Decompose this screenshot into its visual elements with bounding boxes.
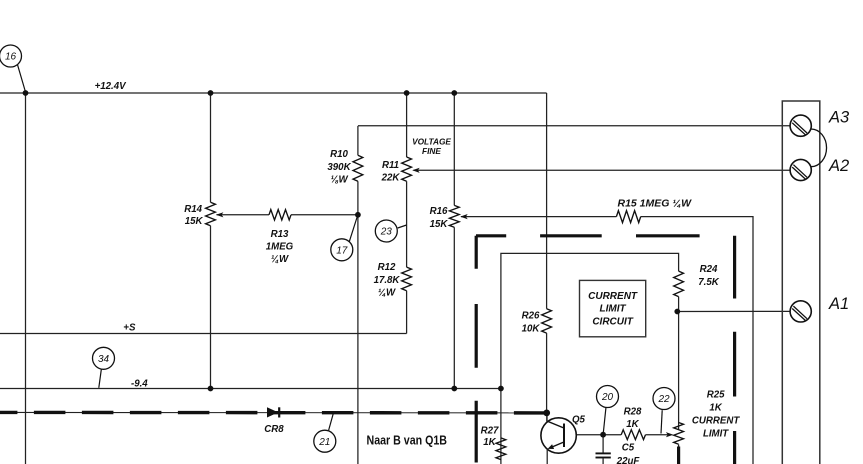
- transistor Q5: [541, 413, 576, 464]
- wire dashed boundary top edge: [476, 234, 700, 237]
- potentiometer R14 15K: [206, 202, 216, 226]
- wire A3 lead: [358, 125, 790, 127]
- svg-text:22K: 22K: [381, 173, 401, 184]
- node junction dots: [23, 90, 681, 438]
- svg-text:17.8K: 17.8K: [374, 275, 401, 286]
- svg-text:34: 34: [98, 354, 110, 365]
- wire +S line: [0, 333, 407, 335]
- svg-text:CR8: CR8: [264, 424, 284, 435]
- resistor R26 10K: [542, 309, 552, 333]
- wire R26 branch vertical: [546, 93, 548, 413]
- svg-text:Naar B van Q1B: Naar B van Q1B: [367, 432, 448, 447]
- svg-text:CURRENT: CURRENT: [692, 416, 740, 427]
- svg-text:20: 20: [601, 392, 614, 403]
- svg-text:FINE: FINE: [422, 146, 441, 156]
- svg-text:-9.4: -9.4: [131, 379, 148, 390]
- wire R14 wiper to R13 to node: [217, 214, 358, 216]
- wire -9.4 line: [0, 388, 501, 390]
- svg-text:¼W: ¼W: [378, 288, 396, 299]
- svg-text:⅛W: ⅛W: [330, 174, 348, 185]
- svg-text:CURRENT: CURRENT: [588, 291, 638, 302]
- terminal strip: [782, 101, 820, 464]
- arrow Q5 emitter: [548, 444, 555, 449]
- screw terminal A3: [790, 115, 811, 136]
- wire jumper arc A3-A2: [811, 129, 827, 167]
- svg-text:A1: A1: [828, 295, 849, 313]
- arrow wiper R16: [460, 214, 468, 219]
- resistor R15 1MEG 1/4W: [616, 211, 640, 223]
- label box CURRENT LIMIT CIRCUIT: [580, 280, 646, 336]
- svg-text:A3: A3: [828, 109, 850, 127]
- svg-text:R14: R14: [184, 204, 202, 215]
- svg-text:21: 21: [318, 437, 330, 448]
- svg-text:A2: A2: [828, 157, 849, 175]
- capacitor C5 22uF: [596, 453, 611, 457]
- wire Q5 base lead: [576, 434, 669, 436]
- svg-text:C5: C5: [622, 443, 635, 454]
- potentiometer R11 22K: [402, 157, 412, 181]
- svg-text:15K: 15K: [430, 219, 449, 230]
- svg-text:390K: 390K: [327, 162, 351, 173]
- balloon callout 17: [331, 217, 358, 261]
- wire left vertical bus: [25, 93, 27, 464]
- svg-text:R24: R24: [700, 264, 718, 275]
- svg-text:23: 23: [380, 227, 393, 238]
- svg-text:R12: R12: [378, 262, 396, 273]
- wire C5 branch: [602, 435, 604, 464]
- resistor R10 390K 1/8W: [353, 155, 363, 181]
- balloon callout 34: [93, 347, 115, 388]
- arrow wiper R14: [216, 212, 224, 217]
- svg-text:15K: 15K: [185, 216, 204, 227]
- wire R16 wiper through R15: [461, 217, 753, 464]
- arrow wiper R11: [412, 168, 420, 173]
- svg-text:CIRCUIT: CIRCUIT: [592, 316, 633, 327]
- arrow wiper R25: [666, 432, 674, 437]
- wire dashed boundary left edge: [475, 236, 478, 463]
- svg-text:R15 1MEG ¼W: R15 1MEG ¼W: [618, 198, 692, 209]
- screw terminal A2: [790, 159, 811, 180]
- wire A2 lead (R11 wiper): [414, 169, 791, 171]
- resistor R27 1K: [496, 438, 506, 460]
- svg-text:7.5K: 7.5K: [698, 277, 719, 288]
- wire +12.4V rail: [0, 92, 547, 94]
- svg-text:1K: 1K: [483, 437, 496, 448]
- svg-text:22: 22: [657, 394, 670, 405]
- wire R10 branch vertical: [357, 126, 359, 464]
- wire R24 to R25 branch: [678, 297, 680, 464]
- diode CR8: [267, 407, 279, 417]
- svg-text:R16: R16: [430, 206, 448, 217]
- svg-text:R13: R13: [271, 229, 289, 240]
- svg-text:+S: +S: [123, 322, 136, 333]
- svg-text:LIMIT: LIMIT: [703, 429, 729, 440]
- wire current-limit inner box top: [501, 253, 679, 464]
- balloon callout 20: [597, 386, 619, 434]
- wire R11/R12 branch vertical: [406, 93, 408, 334]
- svg-text:16: 16: [5, 52, 17, 63]
- node thick-dash junction at Q5 collector: [543, 410, 550, 417]
- balloon callout 23: [375, 220, 406, 242]
- wire A1 lead: [677, 310, 790, 312]
- svg-text:R10: R10: [330, 149, 348, 160]
- screw terminal A1: [790, 301, 811, 322]
- svg-text:1K: 1K: [709, 403, 722, 414]
- resistor R28 1K: [621, 430, 645, 440]
- wire R14 branch vertical: [210, 93, 212, 389]
- potentiometer R16 15K: [449, 205, 459, 227]
- svg-text:10K: 10K: [522, 324, 541, 335]
- wire dashed boundary right edge: [733, 236, 736, 464]
- svg-text:R28: R28: [624, 407, 642, 418]
- svg-text:R11: R11: [382, 160, 399, 171]
- resistor R12 17.8K 1/4W: [402, 267, 412, 291]
- svg-text:VOLTAGE: VOLTAGE: [412, 137, 451, 147]
- balloon callout 22: [653, 388, 675, 434]
- wire thick dashed base line (Naar B van Q1B): [0, 411, 547, 415]
- svg-text:Q5: Q5: [572, 414, 586, 425]
- svg-text:LIMIT: LIMIT: [600, 304, 627, 315]
- wire thick stub below R25: [677, 447, 680, 464]
- resistor R13 1MEG 1/4W: [269, 210, 291, 220]
- svg-text:17: 17: [336, 245, 348, 256]
- svg-text:¼W: ¼W: [271, 254, 289, 265]
- balloon callout 21: [314, 414, 336, 452]
- svg-text:1MEG: 1MEG: [266, 242, 294, 253]
- wire base line under dashes: [0, 411, 547, 414]
- potentiometer R25 1K current limit: [674, 423, 684, 445]
- balloon callout 16: [0, 45, 26, 92]
- svg-text:R27: R27: [481, 426, 499, 437]
- svg-text:R25: R25: [707, 390, 725, 401]
- svg-text:1K: 1K: [626, 419, 639, 430]
- svg-text:+12.4V: +12.4V: [95, 81, 128, 92]
- svg-text:22uF: 22uF: [616, 456, 641, 464]
- wire R16 branch vertical: [453, 93, 455, 389]
- resistor R24 7.5K: [674, 271, 684, 297]
- svg-text:R26: R26: [522, 310, 540, 321]
